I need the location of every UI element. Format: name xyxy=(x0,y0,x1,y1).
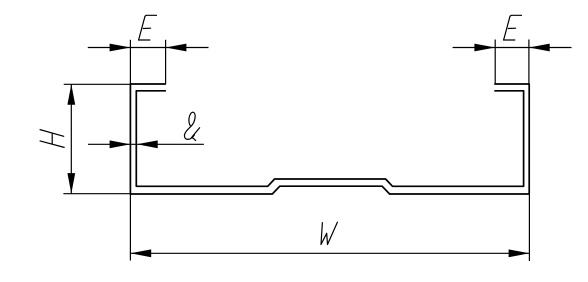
extension line W left (below left wall) xyxy=(129,194,131,261)
arrow W pointing right xyxy=(509,249,530,257)
label E left xyxy=(138,15,157,40)
arrow H pointing up xyxy=(67,84,75,105)
extension line H bottom xyxy=(63,193,130,195)
label delta (ampersand glyph) xyxy=(184,112,199,141)
arrow W pointing left xyxy=(130,249,151,257)
arrow E-right pointing right xyxy=(474,44,495,52)
dimension line E-left xyxy=(88,47,209,49)
extension line E-right outer (above right wall) xyxy=(528,40,530,85)
label W xyxy=(321,222,338,245)
dimension line delta xyxy=(88,143,204,145)
extension line W right (below right wall) xyxy=(528,194,530,261)
extension line E-left outer (above left wall) xyxy=(129,40,131,84)
label H (rotated) xyxy=(40,130,65,148)
extension line E-right inner (above lip tip) xyxy=(494,40,496,85)
dimension line W xyxy=(130,252,529,254)
extension line H top xyxy=(64,83,131,85)
arrow delta pointing right xyxy=(110,140,131,148)
arrow E-left pointing right xyxy=(110,44,131,52)
profile outer contour xyxy=(130,84,529,194)
arrow H pointing down xyxy=(67,173,75,194)
dimension line H xyxy=(70,84,72,193)
arrow delta pointing left xyxy=(137,140,158,148)
profile inner contour xyxy=(136,91,523,187)
dimension line E-right xyxy=(453,47,572,49)
label E right xyxy=(503,15,522,40)
arrow E-right pointing left xyxy=(529,44,550,52)
arrow E-left pointing left xyxy=(166,44,187,52)
extension line E-left inner (above lip tip) xyxy=(165,40,167,84)
